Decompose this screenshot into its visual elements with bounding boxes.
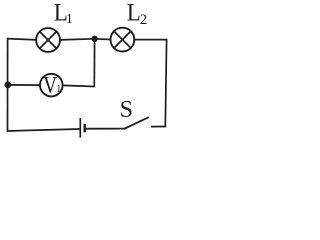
- wire: top middle segment (L1 to L2): [60, 39, 95, 40]
- wire: bottom horizontal (battery to switch pivot): [86, 128, 125, 130]
- svg-text:S: S: [120, 97, 133, 123]
- wire: voltmeter branch right vertical up to junction: [93, 39, 95, 87]
- battery cell: long plate: [79, 118, 81, 138]
- wire: bottom-right horizontal (switch contact to corner): [151, 126, 166, 128]
- node: junction dot on left vertical (voltmeter tap): [4, 82, 11, 89]
- wire: left vertical: [7, 38, 9, 132]
- svg-text:L: L: [127, 0, 141, 27]
- switch S: blade (open): [124, 117, 149, 129]
- wire: right vertical: [165, 39, 166, 127]
- svg-text:1: 1: [66, 12, 73, 27]
- wire: voltmeter branch right horizontal: [63, 85, 95, 86]
- lamp L1: [36, 28, 60, 52]
- svg-text:1: 1: [56, 84, 61, 95]
- lamp L2: [111, 28, 135, 52]
- wire: bottom-left horizontal (corner to battery): [7, 129, 80, 131]
- voltmeter V1: [40, 74, 63, 97]
- node: junction dot on top wire: [91, 36, 97, 42]
- wire: voltmeter branch left horizontal: [8, 84, 40, 86]
- battery cell: short thick plate: [83, 124, 85, 133]
- wire: top-right horizontal segment: [134, 39, 167, 41]
- wire: top-left horizontal segment: [7, 39, 37, 40]
- svg-text:2: 2: [140, 12, 148, 28]
